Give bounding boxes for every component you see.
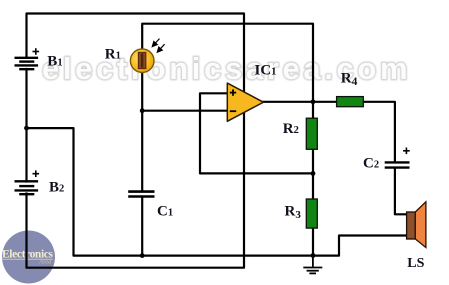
battery B1 [15,58,39,69]
ground [303,256,322,274]
wire B1 bottom to B2 top [25,69,27,182]
photoresistor R1 incident light arrows [152,39,164,53]
node C1 bottom rail [140,253,145,258]
photoresistor R1 [130,49,154,73]
wire R4 to C2 top [363,102,395,162]
op-amp IC1 non-inverting input plus marker [230,89,236,95]
node op-amp output [311,99,316,104]
wire op-amp output to R4 [263,101,337,103]
svg-text:Area: Area [38,258,51,265]
capacitor C1 [128,192,154,197]
wire middle rail to bottom rail 1 to speaker bottom [27,128,408,256]
node R1 C1 inverting input [140,108,145,113]
battery B1 plus polarity mark [33,48,40,55]
wire R1 column and line B to R2 column down to ground [142,24,313,256]
battery B2 [15,181,39,194]
watermark electronicsarea.com [42,51,411,86]
op-amp IC1 [227,83,263,121]
op-amp IC1 inverting input minus marker [230,110,236,112]
svg-text:LS: LS [407,256,424,271]
capacitor C2 plus polarity mark [403,148,410,155]
wire C1 bottom lead [141,198,143,256]
wire C1 top lead [141,111,143,191]
node ground rail [311,253,316,258]
resistor R4 [337,97,364,107]
logo circle Electronics Area [2,231,55,284]
wire C2 bottom to speaker top [395,169,407,215]
wire non-inverting input feedback to R2 R3 node [200,93,313,173]
resistor R3 [306,199,317,228]
wire inverting input line [142,110,228,112]
battery B2 plus polarity mark [33,170,40,177]
resistor R2 [306,118,317,149]
capacitor C2 [385,162,410,167]
node battery middle [24,126,29,131]
speaker LS [407,202,426,248]
wire B1 top to top rail to right vertical to bottom rail 2 to B2 bottom [27,14,245,268]
node R2 R3 junction [311,171,316,176]
